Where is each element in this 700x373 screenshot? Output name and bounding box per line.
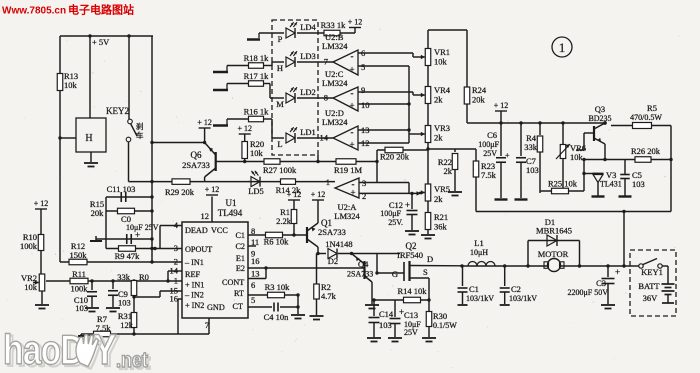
svg-text:+ 12: + 12 (348, 18, 363, 27)
svg-text:R26 20k: R26 20k (631, 146, 661, 156)
svg-text:+ 12: + 12 (494, 101, 509, 110)
svg-text:7: 7 (324, 57, 328, 67)
svg-text:H: H (85, 133, 92, 144)
svg-text:MBR1645: MBR1645 (536, 226, 572, 236)
svg-text:V3: V3 (606, 170, 616, 180)
svg-text:33k: 33k (524, 142, 538, 152)
svg-text:+: + (349, 65, 354, 75)
svg-text:2: 2 (362, 191, 366, 201)
svg-text:L1: L1 (474, 238, 483, 248)
svg-text:VR4: VR4 (434, 85, 451, 95)
svg-text:LD1: LD1 (300, 127, 316, 137)
svg-text:13: 13 (251, 269, 260, 279)
svg-text:C2: C2 (511, 284, 521, 294)
svg-text:LD4: LD4 (300, 22, 316, 32)
svg-text:C1: C1 (235, 231, 245, 240)
svg-text:1: 1 (174, 276, 178, 286)
svg-text:16: 16 (170, 294, 179, 304)
svg-text:25V.: 25V. (388, 218, 403, 227)
svg-text:+: + (505, 151, 510, 160)
svg-text:1: 1 (326, 177, 330, 187)
svg-text:M: M (276, 99, 284, 109)
svg-text:GND: GND (207, 303, 225, 312)
svg-text:103: 103 (526, 165, 539, 175)
svg-text:S: S (423, 267, 428, 277)
svg-text:0.1/5W: 0.1/5W (433, 321, 457, 330)
svg-text:BATT: BATT (638, 281, 660, 291)
svg-text:OPOUT: OPOUT (185, 245, 212, 254)
svg-text:7: 7 (205, 320, 209, 330)
svg-text:14: 14 (170, 266, 179, 276)
svg-text:– IN1: – IN1 (184, 258, 204, 267)
svg-text:电子电路图站: 电子电路图站 (68, 3, 134, 17)
svg-text:haoD: haoD (3, 328, 84, 373)
svg-text:+: + (349, 140, 354, 150)
svg-text:25V: 25V (404, 328, 418, 337)
svg-text:R5: R5 (647, 103, 657, 113)
svg-text:C1: C1 (469, 284, 479, 294)
svg-text:CONT: CONT (222, 278, 244, 287)
svg-text:MOTOR: MOTOR (538, 249, 569, 259)
svg-text:+ 12: + 12 (34, 199, 49, 208)
svg-text:KEY1: KEY1 (641, 267, 663, 277)
svg-text:2SA733: 2SA733 (347, 270, 373, 279)
svg-text:R6 10k: R6 10k (264, 237, 290, 247)
svg-text:100μF: 100μF (478, 140, 499, 149)
svg-text:10k: 10k (64, 80, 78, 90)
svg-text:R20 20k: R20 20k (380, 152, 410, 162)
svg-text:33k: 33k (117, 272, 131, 282)
svg-text:TL494: TL494 (218, 208, 243, 218)
svg-text:10k: 10k (250, 148, 264, 158)
svg-text:C14: C14 (379, 309, 394, 319)
svg-text:TL431: TL431 (600, 180, 622, 189)
svg-text:RT: RT (234, 289, 244, 298)
svg-text:Y: Y (93, 326, 117, 373)
svg-text:25V: 25V (483, 149, 497, 158)
svg-text:103: 103 (379, 320, 392, 330)
svg-text:+ 5V: + 5V (92, 37, 110, 47)
svg-text:6: 6 (251, 280, 255, 290)
svg-text:+ IN1: + IN1 (185, 281, 204, 290)
svg-text:C3: C3 (596, 278, 606, 288)
svg-text:+: + (349, 101, 354, 111)
svg-text:103: 103 (75, 303, 88, 313)
svg-text:+ IN2: + IN2 (185, 301, 204, 310)
svg-text:BD235: BD235 (588, 114, 611, 123)
svg-text:LD2: LD2 (300, 87, 316, 97)
svg-text:E1: E1 (236, 254, 245, 263)
svg-text:36k: 36k (434, 222, 448, 232)
svg-text:LM324: LM324 (322, 41, 348, 51)
svg-text:103: 103 (118, 298, 131, 308)
svg-text:+: + (350, 188, 355, 198)
svg-text:9: 9 (361, 85, 365, 95)
svg-text:R17 1k: R17 1k (244, 71, 270, 81)
svg-text:1N4148: 1N4148 (325, 239, 352, 249)
svg-text:12: 12 (201, 211, 210, 221)
svg-text:R14 10k: R14 10k (397, 286, 427, 296)
svg-text:7.5k: 7.5k (481, 170, 497, 180)
svg-text:-: - (351, 51, 354, 61)
svg-text:U1: U1 (226, 198, 237, 208)
svg-text:Www.7805.cn: Www.7805.cn (2, 6, 66, 17)
svg-text:103: 103 (632, 179, 645, 189)
svg-text:C2: C2 (235, 242, 245, 251)
svg-text:VCC: VCC (211, 226, 228, 235)
svg-text:D2: D2 (328, 256, 338, 266)
svg-text:R3 10k: R3 10k (265, 282, 291, 292)
svg-text:R25 10k: R25 10k (548, 179, 578, 189)
svg-text:+ 12: + 12 (197, 118, 212, 127)
svg-text:G: G (392, 269, 398, 279)
svg-text:+ 12: + 12 (237, 124, 252, 133)
svg-text:LM324: LM324 (322, 117, 348, 127)
svg-text:103/1kV: 103/1kV (509, 294, 537, 303)
svg-text:36V: 36V (643, 293, 659, 303)
svg-text:10k: 10k (434, 57, 448, 67)
svg-text:H: H (277, 63, 283, 73)
svg-text:KEY2: KEY2 (106, 106, 129, 116)
svg-text:R29 20k: R29 20k (165, 187, 195, 197)
svg-text:– IN2: – IN2 (184, 291, 204, 300)
svg-text:R30: R30 (433, 311, 447, 321)
svg-text:Q3: Q3 (595, 104, 605, 114)
svg-text:IRF540: IRF540 (397, 250, 423, 260)
svg-text:10μF 25V: 10μF 25V (126, 223, 159, 232)
svg-text:16: 16 (251, 256, 260, 266)
svg-text:2SA733: 2SA733 (318, 227, 346, 237)
svg-text:LM324: LM324 (322, 78, 348, 88)
svg-text:R21: R21 (434, 212, 448, 222)
svg-text:R27 100k: R27 100k (263, 165, 297, 175)
svg-text:+ 12: + 12 (205, 185, 220, 194)
svg-text:5: 5 (251, 295, 255, 305)
svg-text:.net: .net (116, 349, 148, 373)
svg-text:-: - (351, 127, 354, 137)
svg-text:8: 8 (324, 93, 328, 103)
svg-text:REF: REF (185, 270, 200, 279)
svg-text:R9 47k: R9 47k (115, 251, 141, 261)
svg-text:10k: 10k (24, 282, 38, 292)
svg-text:C13: C13 (404, 310, 418, 320)
svg-text:100μF: 100μF (380, 209, 401, 218)
svg-text:DEAD: DEAD (185, 226, 208, 235)
svg-text:2k: 2k (434, 95, 443, 105)
svg-text:R0: R0 (139, 272, 149, 282)
svg-text:5: 5 (361, 62, 365, 72)
svg-text:100k: 100k (71, 284, 89, 294)
svg-text:R19 1M: R19 1M (334, 165, 363, 175)
svg-text:C11 103: C11 103 (107, 184, 136, 194)
svg-text:E2: E2 (236, 264, 245, 273)
svg-text:3: 3 (174, 243, 178, 253)
svg-text:+: + (615, 267, 620, 277)
svg-text:2200μF 50V: 2200μF 50V (567, 288, 608, 297)
svg-text:2k: 2k (434, 133, 443, 143)
svg-text:150k: 150k (70, 250, 88, 260)
svg-text:103/1kV: 103/1kV (466, 294, 494, 303)
svg-text:20k: 20k (472, 95, 486, 105)
svg-text:+: + (405, 200, 410, 210)
svg-text:2k: 2k (444, 166, 453, 176)
svg-text:20k: 20k (91, 208, 105, 218)
svg-text:+ 12: + 12 (311, 190, 326, 199)
svg-text:刹: 刹 (136, 122, 144, 131)
svg-text:C6: C6 (487, 130, 497, 140)
svg-text:L: L (277, 139, 282, 149)
svg-text:10k: 10k (570, 152, 584, 162)
svg-text:LD5: LD5 (248, 186, 264, 196)
svg-text:Q6: Q6 (191, 150, 202, 160)
svg-text:R16 1k: R16 1k (244, 107, 270, 117)
svg-text:CT: CT (233, 302, 243, 311)
svg-text:VR1: VR1 (434, 47, 450, 57)
svg-text:100k: 100k (20, 241, 38, 251)
svg-text:+: + (135, 230, 140, 240)
svg-text:LD3: LD3 (300, 51, 316, 61)
svg-text:2SA733: 2SA733 (182, 160, 210, 170)
svg-text:LM324: LM324 (334, 211, 360, 221)
svg-text:R11: R11 (72, 269, 86, 279)
svg-text:R24: R24 (472, 85, 487, 95)
svg-text:-: - (351, 88, 354, 98)
svg-text:+ 12: + 12 (287, 190, 302, 199)
svg-text:14: 14 (320, 133, 329, 143)
svg-text:VR3: VR3 (434, 123, 450, 133)
svg-text:2.2k: 2.2k (276, 216, 292, 226)
svg-text:10μH: 10μH (470, 248, 488, 257)
svg-text:4.7k: 4.7k (321, 291, 337, 301)
svg-text:470/0.5W: 470/0.5W (630, 113, 662, 122)
svg-text:C4 10n: C4 10n (264, 312, 290, 322)
svg-text:R18 1k: R18 1k (244, 53, 270, 63)
svg-text:1: 1 (559, 40, 566, 55)
svg-text:D: D (427, 254, 433, 264)
svg-text:P: P (278, 34, 283, 44)
svg-text:VR5: VR5 (434, 184, 450, 194)
svg-text:12k: 12k (120, 320, 134, 330)
svg-text:R33 1k: R33 1k (321, 20, 347, 30)
svg-text:10: 10 (361, 100, 370, 110)
